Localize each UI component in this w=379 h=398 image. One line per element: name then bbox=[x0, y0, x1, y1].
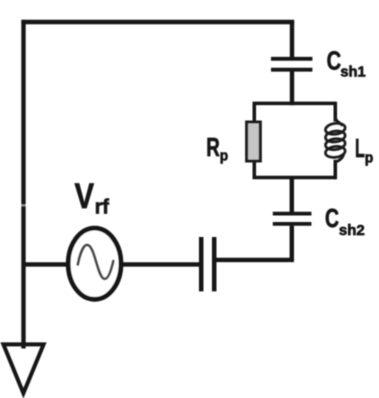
label R_p bbox=[206, 132, 228, 165]
wire: source to left rail bbox=[22, 262, 70, 266]
resistor R_p bbox=[247, 122, 261, 161]
tank box right edge lower stub bbox=[334, 160, 338, 180]
wire: top horizontal bbox=[21, 20, 294, 24]
label C_sh2 bbox=[325, 203, 365, 239]
wire: left vertical rail bbox=[21, 20, 25, 349]
ground symbol bbox=[3, 344, 43, 393]
label L_p bbox=[355, 133, 373, 167]
svg-text:C: C bbox=[325, 203, 339, 233]
svg-text:p: p bbox=[365, 150, 374, 167]
capacitor C_sh1 bbox=[271, 59, 312, 70]
svg-text:R: R bbox=[206, 132, 220, 162]
wire: tank box to C_sh2 bbox=[290, 178, 294, 213]
svg-text:p: p bbox=[220, 148, 228, 165]
sine wave inside source bbox=[78, 245, 114, 279]
AC source V_rf circle bbox=[68, 228, 121, 299]
svg-text:C: C bbox=[327, 46, 342, 76]
svg-text:rf: rf bbox=[95, 197, 110, 219]
tank box right edge upper stub bbox=[334, 102, 338, 122]
wire: right drop to C_sh1 bbox=[290, 20, 294, 57]
svg-text:V: V bbox=[75, 177, 95, 216]
wire: coupling cap to source bbox=[121, 262, 200, 266]
rail joint notch bbox=[21, 204, 26, 206]
inductor L_p coil bbox=[325, 117, 346, 162]
svg-text:L: L bbox=[355, 133, 365, 163]
tank box (top, left, bottom sides) bbox=[254, 103, 335, 177]
label V_rf bbox=[75, 177, 110, 219]
capacitor C_sh2 bbox=[273, 214, 312, 224]
svg-text:sh2: sh2 bbox=[339, 222, 365, 239]
coupling capacitor plates bbox=[201, 237, 214, 291]
wire: C_sh1 to tank box bbox=[290, 72, 294, 106]
wire: C_sh2 down and left to coupling cap bbox=[216, 226, 292, 260]
label C_sh1 bbox=[327, 46, 366, 81]
svg-text:sh1: sh1 bbox=[340, 63, 365, 80]
